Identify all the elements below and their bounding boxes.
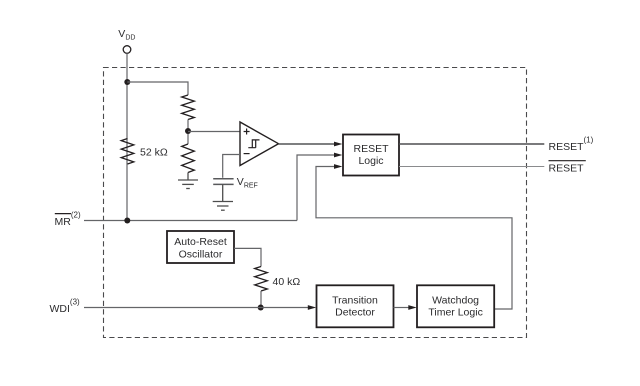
svg-text:Oscillator: Oscillator — [179, 249, 223, 261]
wire watchdog output loop to RESET Logic input 3 — [316, 167, 512, 310]
arrowhead into RESET Logic input 2 — [334, 153, 342, 158]
label 40 kOhm — [273, 276, 301, 288]
wire 40k to WDI line — [260, 291, 262, 308]
wire RESETbar output — [399, 166, 544, 168]
ground divider — [178, 180, 198, 189]
ground VREF — [213, 202, 233, 211]
wire comparator minus input to VREF — [223, 155, 240, 178]
label VDD — [118, 28, 135, 42]
svg-text:Detector: Detector — [335, 307, 375, 319]
svg-text:40 kΩ: 40 kΩ — [273, 276, 301, 288]
wire divider mid — [187, 120, 189, 145]
label 52 kOhm — [140, 146, 168, 158]
svg-text:Timer Logic: Timer Logic — [428, 307, 482, 319]
capacitor VREF — [213, 179, 233, 185]
resistor divider upper — [182, 95, 195, 120]
resistor 52k — [121, 139, 134, 165]
wire MR input — [84, 220, 297, 222]
arrowhead into RESET Logic input 1 — [334, 142, 342, 147]
junction node VDD/divider — [124, 79, 130, 85]
wire MR to RESET Logic input 2 — [297, 155, 336, 221]
wire RESET output — [399, 143, 544, 145]
svg-text:Auto-Reset: Auto-Reset — [174, 236, 227, 248]
wire divider lower to ground — [187, 173, 189, 181]
arrowhead into Transition Detector — [308, 305, 316, 310]
svg-text:RESET: RESET — [353, 143, 389, 155]
label VREF — [237, 176, 258, 190]
terminal circle VDD — [123, 46, 131, 54]
block Transition Detector — [317, 285, 394, 327]
wire VDD node to divider top — [127, 82, 188, 95]
resistor 40k — [255, 267, 268, 292]
svg-text:RESET: RESET — [549, 162, 585, 174]
junction node MR/52k — [124, 218, 130, 224]
junction node WDI/40k — [258, 305, 264, 311]
wire VREF cap to ground — [222, 184, 224, 201]
resistor divider lower — [182, 144, 195, 173]
junction node divider tap — [185, 128, 191, 134]
block Auto-Reset Oscillator — [167, 231, 234, 263]
wire VDD vertical down to MR line — [126, 53, 128, 220]
label WDI(3) — [50, 298, 81, 315]
op-amp comparator — [240, 122, 279, 166]
block Watchdog Timer Logic — [417, 285, 494, 327]
svg-text:52 kΩ: 52 kΩ — [140, 146, 168, 158]
block RESET Logic — [343, 135, 399, 176]
IC boundary dashed box — [104, 68, 527, 338]
wire oscillator to 40k resistor — [234, 248, 261, 266]
wire comparator output to RESET Logic — [279, 143, 337, 145]
svg-text:Watchdog: Watchdog — [432, 295, 479, 307]
label RESETbar — [549, 161, 586, 175]
svg-text:Logic: Logic — [358, 155, 383, 167]
arrowhead into Watchdog Timer Logic — [408, 305, 416, 310]
wire WDI input — [84, 307, 309, 309]
label MR(2) — [55, 211, 81, 228]
wire divider tap to comparator plus input — [188, 131, 240, 133]
label RESET(1) — [549, 136, 594, 153]
svg-text:Transition: Transition — [332, 295, 378, 307]
wire Transition Detector to Watchdog Timer Logic — [394, 307, 410, 309]
arrowhead into RESET Logic input 3 — [334, 164, 342, 169]
